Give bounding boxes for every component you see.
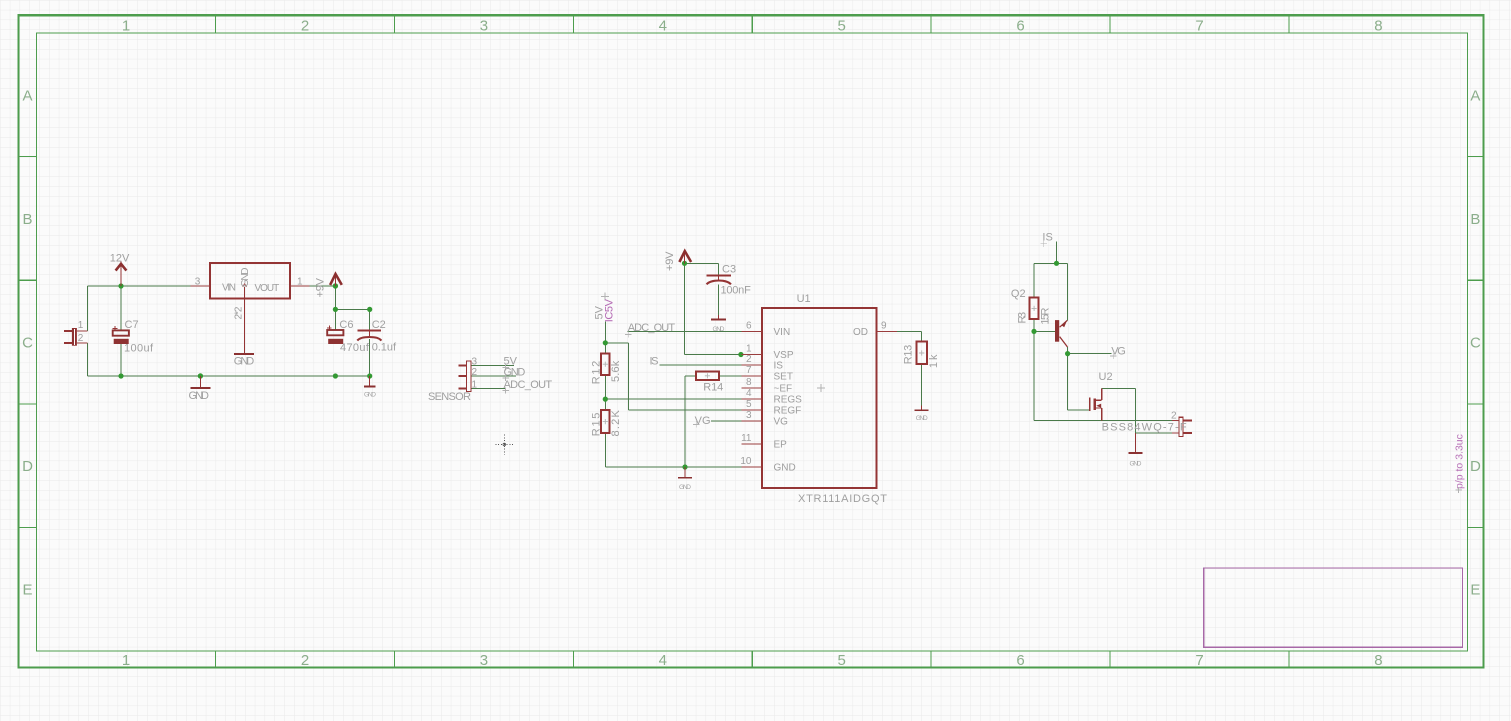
svg-text:GND: GND: [916, 415, 928, 422]
svg-text:C: C: [1470, 335, 1481, 352]
svg-text:R12: R12: [591, 361, 603, 385]
svg-text:GND: GND: [234, 356, 254, 368]
svg-text:6: 6: [1016, 18, 1024, 35]
svg-text:470uf: 470uf: [340, 342, 370, 354]
svg-text:+9V: +9V: [315, 277, 327, 297]
svg-text:4: 4: [659, 652, 667, 669]
svg-text:Q2: Q2: [1011, 288, 1026, 300]
svg-text:2: 2: [78, 333, 84, 344]
svg-text:C: C: [22, 335, 33, 352]
svg-text:C2: C2: [372, 319, 386, 331]
svg-text:E: E: [1470, 582, 1480, 599]
svg-text:C6: C6: [339, 319, 353, 331]
svg-text:ADC_OUT: ADC_OUT: [628, 322, 676, 334]
svg-text:5: 5: [838, 18, 846, 35]
svg-text:1: 1: [122, 18, 130, 35]
svg-text:15R: 15R: [1040, 307, 1052, 324]
svg-text:3: 3: [195, 277, 201, 288]
svg-text:7: 7: [746, 365, 752, 376]
svg-text:2*2: 2*2: [234, 306, 245, 319]
svg-text:GND: GND: [240, 268, 251, 288]
svg-text:1: 1: [472, 379, 478, 390]
svg-text:E: E: [22, 582, 32, 599]
svg-text:3: 3: [480, 18, 488, 35]
svg-text:6: 6: [746, 321, 752, 332]
svg-text:1: 1: [297, 277, 303, 288]
svg-text:XTR111AIDGQT: XTR111AIDGQT: [798, 493, 887, 505]
svg-text:REGS: REGS: [774, 394, 803, 405]
svg-text:+9V: +9V: [664, 251, 676, 271]
svg-text:SET: SET: [774, 371, 793, 382]
svg-text:B: B: [1470, 211, 1480, 228]
svg-text:2: 2: [746, 354, 752, 365]
svg-text:8: 8: [1374, 18, 1382, 35]
svg-text:100uf: 100uf: [124, 343, 154, 355]
svg-text:GND: GND: [713, 326, 725, 333]
svg-text:0.1uf: 0.1uf: [372, 342, 397, 354]
svg-text:GND: GND: [774, 462, 796, 473]
svg-text:3: 3: [472, 356, 478, 367]
svg-text:8: 8: [746, 377, 752, 388]
svg-text:1: 1: [78, 320, 84, 331]
svg-text:IS: IS: [650, 355, 659, 367]
svg-text:VOUT: VOUT: [255, 283, 280, 294]
svg-text:ADC_OUT: ADC_OUT: [504, 379, 553, 391]
svg-text:GND: GND: [1130, 461, 1142, 468]
svg-text:4: 4: [746, 388, 752, 399]
svg-text:VG: VG: [1111, 346, 1126, 358]
svg-text:5V: 5V: [504, 356, 518, 368]
svg-text:7: 7: [1195, 18, 1203, 35]
svg-text:6: 6: [1016, 652, 1024, 669]
svg-text:VSP: VSP: [774, 350, 794, 361]
svg-text:C7: C7: [125, 319, 139, 331]
svg-text:3: 3: [480, 652, 488, 669]
svg-text:U1: U1: [797, 293, 811, 305]
svg-text:5: 5: [746, 399, 752, 410]
svg-text:VG: VG: [695, 415, 711, 427]
svg-text:100nF: 100nF: [721, 285, 752, 297]
svg-text:2: 2: [1171, 411, 1177, 422]
svg-text:R13: R13: [903, 345, 915, 364]
svg-text:2: 2: [472, 367, 478, 378]
svg-text:GND: GND: [504, 367, 526, 379]
svg-text:2: 2: [301, 18, 309, 35]
svg-text:OD: OD: [853, 327, 868, 338]
svg-text:VIN: VIN: [222, 283, 236, 294]
svg-text:A: A: [22, 87, 32, 104]
svg-text:IS: IS: [1042, 232, 1053, 244]
svg-text:B: B: [22, 211, 32, 228]
svg-text:5.6k: 5.6k: [610, 360, 622, 382]
svg-text:5: 5: [838, 652, 846, 669]
svg-text:4: 4: [659, 18, 667, 35]
svg-text:GND: GND: [364, 392, 376, 399]
svg-text:11: 11: [741, 433, 752, 444]
svg-text:8: 8: [1374, 652, 1382, 669]
svg-text:~EF: ~EF: [774, 383, 793, 394]
svg-text:9: 9: [881, 321, 887, 332]
svg-text:A: A: [1470, 87, 1480, 104]
svg-text:GND: GND: [679, 484, 691, 491]
svg-text:R3: R3: [1017, 312, 1029, 324]
svg-text:D: D: [1470, 458, 1481, 475]
svg-text:D: D: [22, 458, 33, 475]
svg-text:EP: EP: [774, 439, 788, 450]
svg-text:7: 7: [1195, 652, 1203, 669]
svg-text:R15: R15: [591, 413, 603, 437]
svg-text:10: 10: [740, 456, 752, 467]
svg-text:VG: VG: [774, 417, 789, 428]
svg-text:VIN: VIN: [774, 327, 791, 338]
svg-text:IS: IS: [774, 360, 784, 371]
svg-text:12V: 12V: [110, 253, 130, 265]
svg-text:GND: GND: [189, 390, 210, 402]
svg-text:3: 3: [746, 410, 752, 421]
svg-text:2: 2: [301, 652, 309, 669]
svg-text:1: 1: [122, 652, 130, 669]
svg-text:SENSOR: SENSOR: [428, 391, 471, 403]
svg-text:REGF: REGF: [774, 405, 802, 416]
svg-text:R14: R14: [703, 382, 723, 394]
svg-text:p/p to 3.3uc: p/p to 3.3uc: [1454, 434, 1466, 489]
svg-text:U2: U2: [1099, 371, 1113, 383]
svg-text:C3: C3: [722, 264, 736, 276]
svg-text:8.2K: 8.2K: [610, 410, 622, 437]
svg-text:IC5V: IC5V: [604, 298, 616, 322]
svg-text:BSS84WQ-7-F: BSS84WQ-7-F: [1102, 422, 1187, 434]
svg-text:1: 1: [746, 344, 752, 355]
